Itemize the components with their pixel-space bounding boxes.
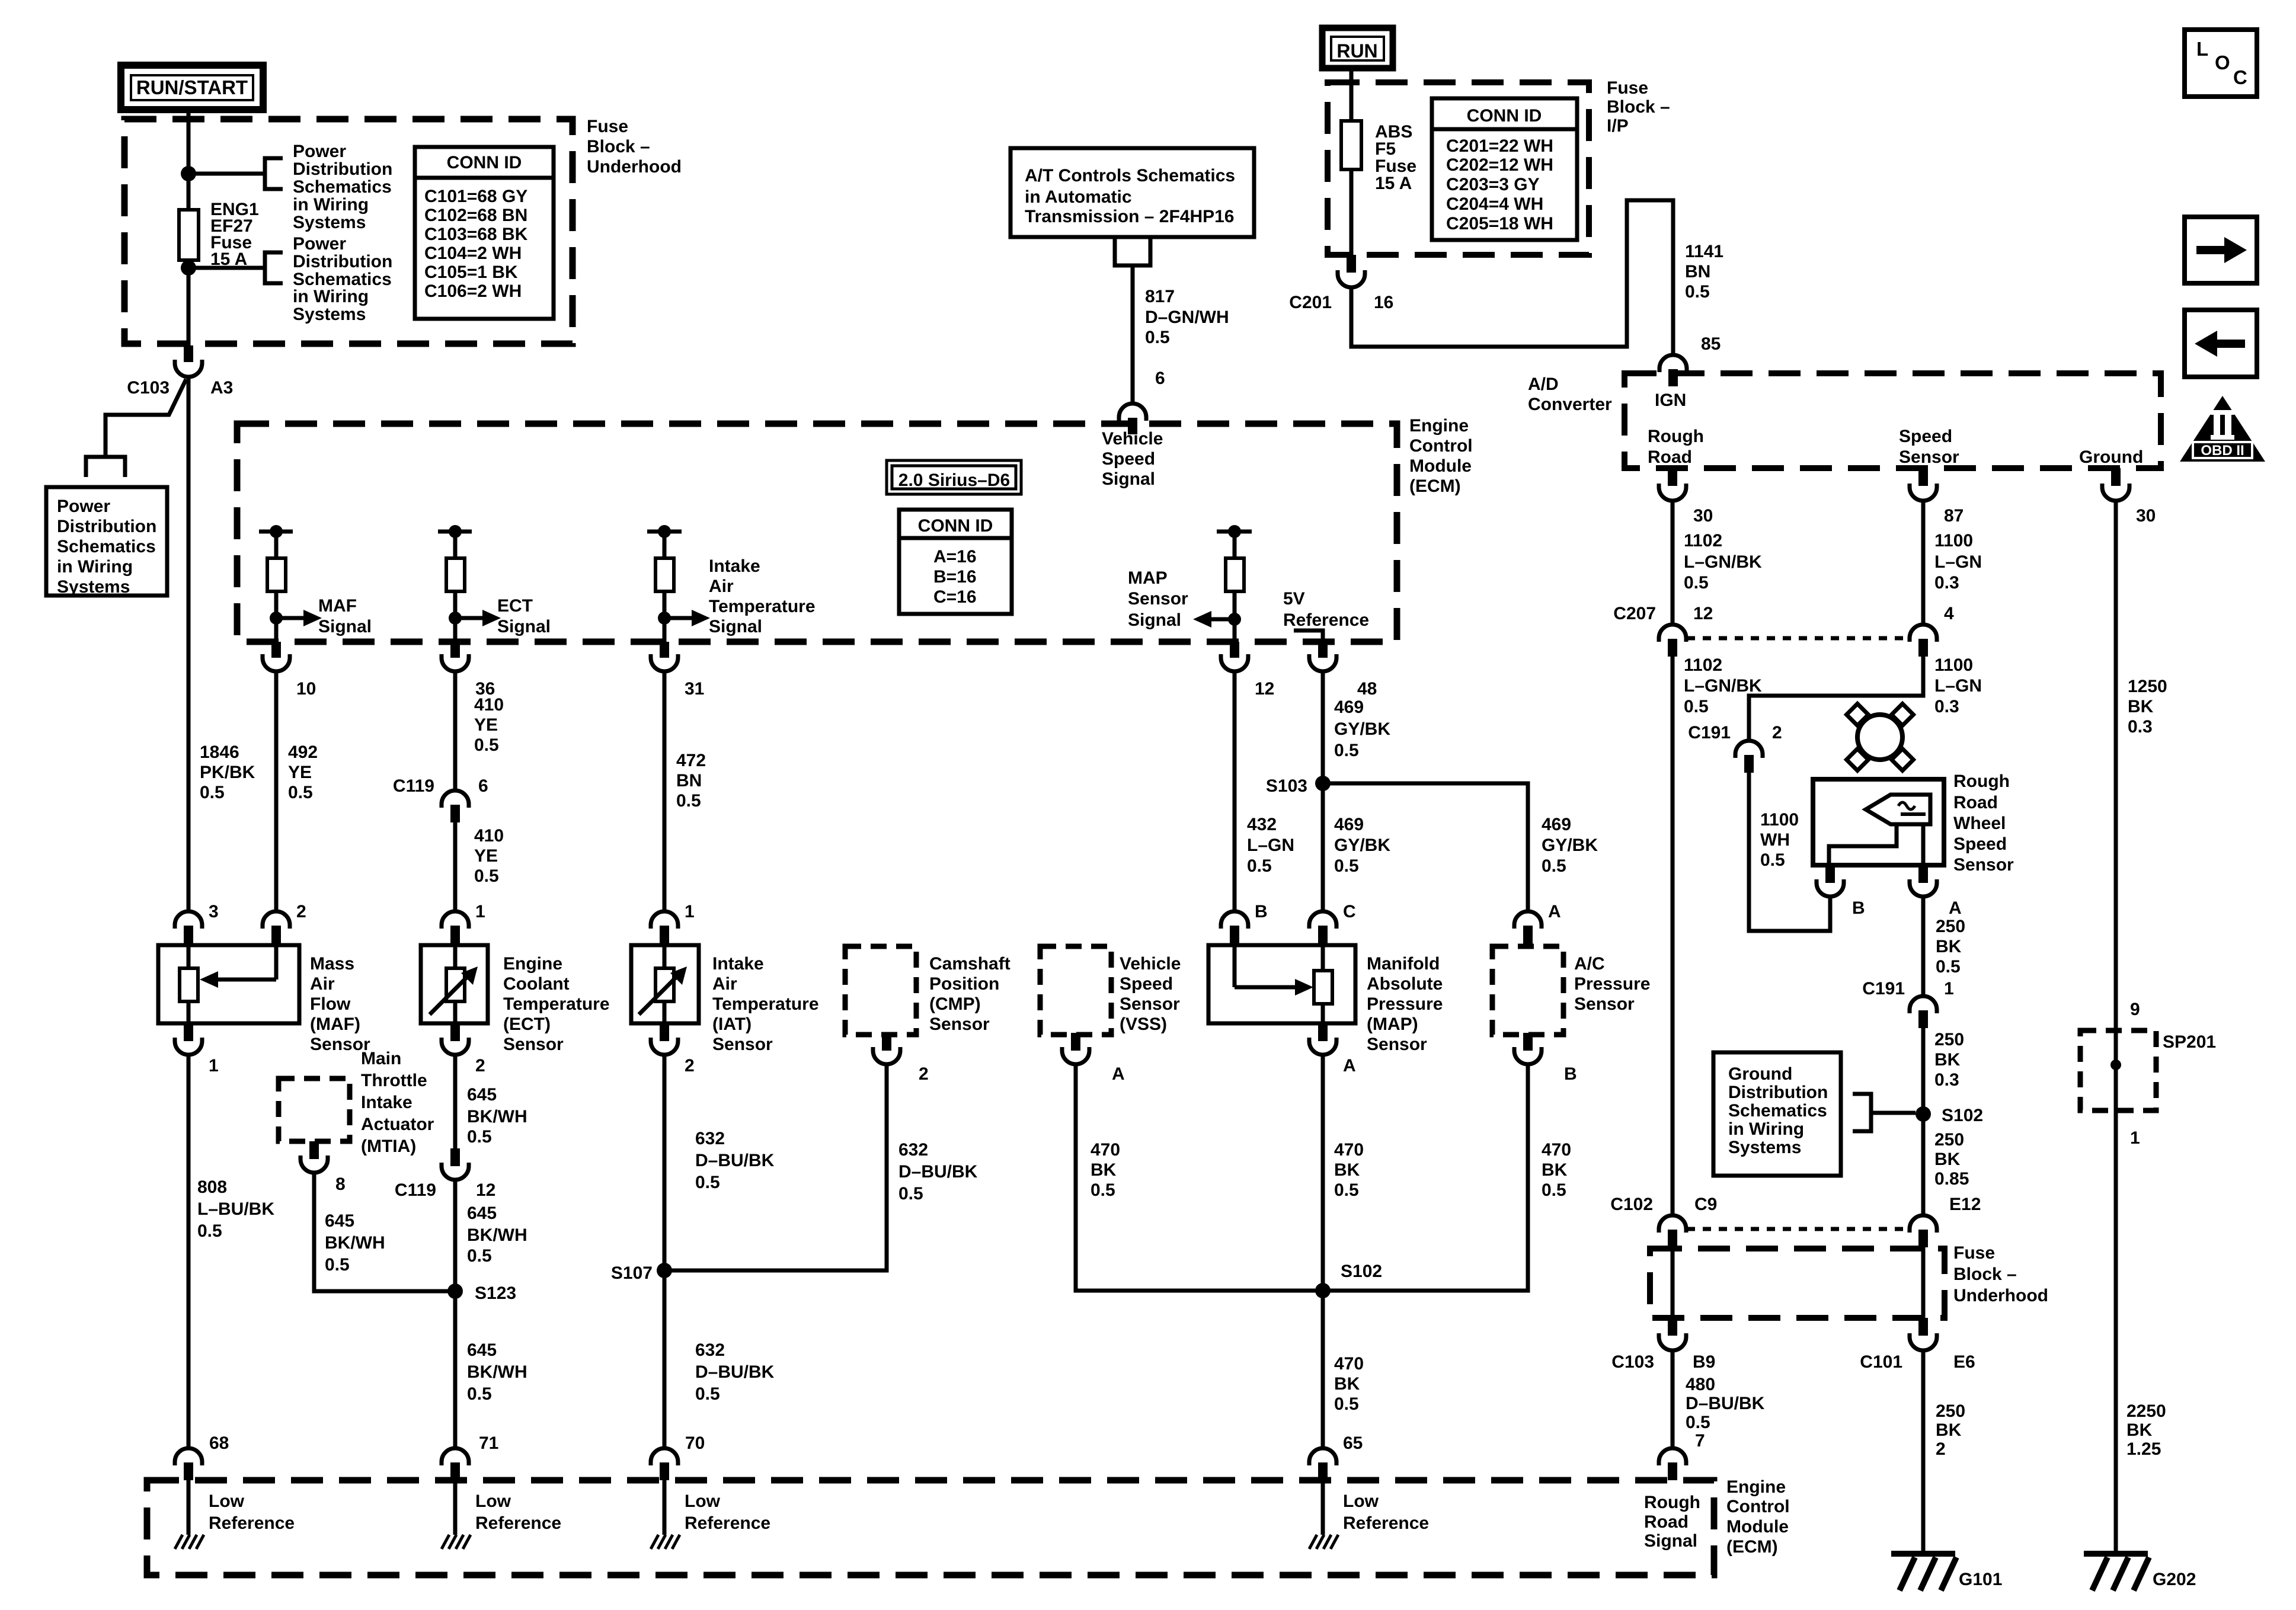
svg-text:632: 632: [898, 1140, 928, 1160]
svg-text:Actuator: Actuator: [361, 1115, 434, 1134]
svg-text:Rough: Rough: [1644, 1493, 1700, 1512]
svg-text:BK/WH: BK/WH: [467, 1225, 527, 1245]
ECM bottom dashed box: [147, 1480, 1714, 1575]
svg-text:C105=1 BK: C105=1 BK: [424, 263, 518, 282]
svg-text:CONN ID: CONN ID: [1467, 106, 1542, 126]
ECM MAP sensor signal resistor: [1217, 530, 1252, 534]
node MAF signal arrow: [270, 612, 283, 625]
off-page bracket 3: [86, 457, 125, 477]
svg-text:469: 469: [1542, 815, 1571, 834]
svg-text:C119: C119: [395, 1180, 436, 1200]
svg-text:C203=3 GY: C203=3 GY: [1446, 175, 1540, 194]
svg-text:31: 31: [685, 679, 704, 699]
svg-text:D–BU/BK: D–BU/BK: [695, 1151, 775, 1170]
svg-text:(CMP): (CMP): [929, 994, 981, 1014]
svg-text:Schematics: Schematics: [57, 537, 156, 556]
svg-text:(ECM): (ECM): [1409, 476, 1461, 496]
svg-text:A: A: [1343, 1056, 1356, 1076]
svg-text:A/D: A/D: [1528, 375, 1559, 394]
connector ECM pin 48: [1318, 642, 1328, 658]
svg-text:Sensor: Sensor: [1367, 1035, 1427, 1054]
svg-text:C101=68 GY: C101=68 GY: [424, 187, 527, 206]
svg-text:1100: 1100: [1934, 531, 1973, 550]
svg-text:410: 410: [474, 826, 504, 846]
svg-text:BK: BK: [1936, 937, 1962, 956]
off-page bracket 2: [265, 252, 283, 283]
svg-text:Schematics: Schematics: [1728, 1101, 1827, 1121]
svg-text:1: 1: [209, 1056, 219, 1076]
svg-text:A/C: A/C: [1574, 954, 1605, 974]
svg-text:1100: 1100: [1760, 810, 1799, 830]
svg-text:0.3: 0.3: [2128, 717, 2153, 737]
svg-text:Sensor: Sensor: [1120, 994, 1180, 1014]
svg-text:0.5: 0.5: [1247, 856, 1272, 876]
RUN power flag: [1322, 28, 1393, 68]
connector ECM pin 10: [271, 642, 281, 658]
wire 472 BN pin31 to IAT: [663, 672, 667, 913]
ground low reference 65: [1309, 1535, 1317, 1549]
svg-text:645: 645: [467, 1340, 497, 1360]
VSS sensor dashed box: [1040, 946, 1111, 1035]
wire RUN to ABS fuse: [1350, 68, 1354, 121]
svg-text:BN: BN: [676, 771, 702, 790]
MTIA dashed box: [279, 1078, 350, 1141]
svg-text:L–BU/BK: L–BU/BK: [197, 1199, 274, 1219]
ECM dashed box: [237, 424, 1397, 642]
node junction lower: [181, 260, 196, 276]
svg-text:85: 85: [1701, 334, 1721, 354]
svg-text:Pressure: Pressure: [1574, 974, 1650, 994]
connector C101 pin E6: [1918, 1318, 1928, 1336]
svg-text:BK: BK: [2126, 1420, 2153, 1440]
svg-text:Pressure: Pressure: [1367, 994, 1443, 1014]
wire low reference pin 68: [187, 1480, 191, 1535]
svg-text:C106=2 WH: C106=2 WH: [424, 281, 522, 301]
svg-text:Speed: Speed: [1120, 974, 1173, 994]
svg-text:S103: S103: [1266, 776, 1307, 796]
svg-text:Temperature: Temperature: [712, 994, 819, 1014]
wire S103 branch to AC pressure: [1323, 783, 1528, 913]
connector sensor top pin C at x2232: [1309, 911, 1336, 929]
svg-text:5V: 5V: [1283, 589, 1305, 609]
box ground distribution schematics: [1713, 1052, 1841, 1176]
svg-text:G202: G202: [2153, 1570, 2196, 1589]
svg-text:0.5: 0.5: [474, 866, 499, 886]
svg-text:2: 2: [475, 1056, 485, 1076]
svg-text:48: 48: [1357, 679, 1377, 699]
svg-text:Power: Power: [293, 234, 346, 254]
svg-text:SP201: SP201: [2163, 1032, 2216, 1052]
svg-text:B=16: B=16: [933, 567, 977, 587]
svg-text:808: 808: [197, 1177, 227, 1197]
svg-text:C9: C9: [1694, 1195, 1717, 1214]
svg-text:Engine: Engine: [1409, 416, 1469, 436]
svg-text:6: 6: [478, 776, 488, 796]
svg-text:71: 71: [479, 1433, 498, 1453]
wire ABS fuse to C201: [1350, 169, 1354, 256]
svg-text:Air: Air: [310, 974, 335, 994]
svg-text:YE: YE: [474, 846, 498, 866]
svg-text:3: 3: [209, 902, 219, 921]
svg-text:Sensor: Sensor: [1953, 855, 2014, 875]
svg-text:Speed: Speed: [1899, 427, 1952, 446]
wire 250 through fuse block: [1921, 1247, 1926, 1319]
svg-text:0.5: 0.5: [1334, 1394, 1359, 1414]
svg-text:Distribution: Distribution: [293, 252, 392, 271]
svg-text:0.5: 0.5: [197, 1221, 222, 1241]
svg-text:C103: C103: [1611, 1352, 1654, 1372]
svg-text:Distribution: Distribution: [1728, 1083, 1828, 1102]
connector sensor top pin 1 at x768: [442, 911, 469, 929]
svg-text:Sensor: Sensor: [503, 1035, 564, 1054]
rough road wheel speed sensor box: [1813, 779, 1944, 865]
svg-text:Speed: Speed: [1953, 834, 2007, 854]
connector dashed sensor bottom pin B at x2578: [1523, 1033, 1533, 1051]
connector sensor pin A: [1918, 865, 1928, 883]
svg-text:Manifold: Manifold: [1367, 954, 1440, 974]
wire 410 YE C119 to ECT: [453, 822, 458, 913]
svg-text:B9: B9: [1693, 1352, 1715, 1372]
svg-text:0.5: 0.5: [1334, 1180, 1359, 1200]
CONN ID table IP: [1432, 98, 1577, 240]
svg-text:432: 432: [1247, 815, 1277, 834]
svg-text:Temperature: Temperature: [709, 597, 816, 616]
arrow box right: [2185, 217, 2257, 283]
svg-text:Reference: Reference: [475, 1513, 561, 1533]
node MAP signal arrow: [1228, 613, 1241, 626]
svg-text:Sensor: Sensor: [1128, 589, 1188, 609]
svg-text:Intake: Intake: [361, 1093, 412, 1112]
svg-text:Road: Road: [1953, 793, 1998, 812]
svg-text:Camshaft: Camshaft: [929, 954, 1011, 974]
svg-text:C=16: C=16: [933, 587, 977, 607]
svg-text:Vehicle: Vehicle: [1120, 954, 1181, 974]
svg-text:470: 470: [1334, 1354, 1364, 1374]
box 2.0 Sirius-D6: [887, 460, 1021, 494]
connector sensor top pin B at x2083: [1221, 911, 1248, 929]
svg-text:C204=4 WH: C204=4 WH: [1446, 194, 1543, 214]
connector E12: [1910, 1215, 1937, 1233]
MAF internal arrow: [274, 945, 279, 980]
svg-text:A3: A3: [210, 378, 233, 398]
svg-text:Road: Road: [1644, 1512, 1689, 1532]
svg-text:A=16: A=16: [933, 547, 977, 566]
svg-text:in Automatic: in Automatic: [1025, 187, 1132, 207]
svg-text:Rough: Rough: [1953, 772, 2010, 791]
svg-text:C: C: [1343, 902, 1356, 921]
svg-text:6: 6: [1155, 369, 1165, 388]
MAF sensor box: [158, 945, 299, 1023]
svg-text:Intake: Intake: [709, 556, 760, 576]
node ECT signal arrow: [449, 612, 462, 625]
wire 645 S123 to pin71: [453, 1291, 458, 1449]
wire 470 VSS to S102: [1076, 1064, 1323, 1291]
svg-text:12: 12: [1693, 604, 1713, 623]
svg-text:RUN: RUN: [1336, 40, 1377, 62]
ground low reference 68: [175, 1535, 183, 1549]
svg-text:L: L: [2196, 38, 2208, 60]
ground low reference 71: [442, 1535, 449, 1549]
svg-text:469: 469: [1334, 815, 1364, 834]
svg-text:D–BU/BK: D–BU/BK: [1686, 1394, 1765, 1413]
svg-text:B: B: [1852, 898, 1865, 918]
svg-text:1102: 1102: [1684, 655, 1722, 675]
svg-text:Reference: Reference: [685, 1513, 770, 1533]
ground G202: [2084, 1551, 2148, 1557]
fuse ABS F5 15A: [1341, 121, 1361, 169]
svg-text:L–GN: L–GN: [1934, 552, 1982, 572]
svg-text:Reference: Reference: [1343, 1513, 1429, 1533]
svg-text:Position: Position: [929, 974, 999, 994]
svg-text:Fuse: Fuse: [587, 117, 628, 136]
svg-text:Distribution: Distribution: [57, 517, 156, 536]
svg-text:1.25: 1.25: [2126, 1439, 2161, 1459]
svg-text:Sensor: Sensor: [1574, 994, 1635, 1014]
node IAT signal arrow: [658, 612, 671, 625]
svg-text:15 A: 15 A: [1375, 174, 1412, 193]
svg-text:1: 1: [1944, 979, 1954, 998]
svg-text:GY/BK: GY/BK: [1334, 719, 1390, 739]
svg-text:Rough: Rough: [1648, 427, 1704, 446]
svg-text:Low: Low: [475, 1491, 511, 1511]
svg-text:0.85: 0.85: [1934, 1169, 1969, 1189]
AC pressure sensor dashed box: [1492, 946, 1563, 1035]
svg-text:Signal: Signal: [497, 617, 551, 636]
svg-text:B: B: [1255, 902, 1268, 921]
IAT sensor box: [631, 945, 699, 1023]
svg-text:0.5: 0.5: [1542, 856, 1566, 876]
svg-text:2: 2: [1772, 723, 1782, 742]
svg-text:Sensor: Sensor: [1899, 447, 1959, 467]
wire 470 S102 to pin65: [1321, 1291, 1325, 1449]
svg-text:Signal: Signal: [709, 617, 762, 636]
svg-text:70: 70: [685, 1433, 705, 1453]
svg-text:0.5: 0.5: [1685, 282, 1710, 302]
svg-text:1: 1: [685, 902, 695, 921]
svg-text:7: 7: [1695, 1431, 1705, 1451]
svg-text:S123: S123: [475, 1283, 516, 1303]
svg-text:in Wiring: in Wiring: [293, 195, 369, 215]
svg-text:68: 68: [209, 1433, 229, 1453]
svg-text:O: O: [2215, 52, 2230, 73]
svg-text:C202=12 WH: C202=12 WH: [1446, 155, 1553, 175]
svg-text:0.3: 0.3: [1934, 573, 1959, 593]
svg-text:(VSS): (VSS): [1120, 1014, 1167, 1034]
svg-text:2: 2: [919, 1064, 929, 1084]
svg-text:410: 410: [474, 695, 504, 715]
RUN/START power flag: [121, 65, 263, 110]
svg-text:(MAP): (MAP): [1367, 1014, 1418, 1034]
svg-text:492: 492: [288, 742, 318, 762]
wire vehicle speed signal into ECM: [1131, 265, 1135, 404]
svg-text:A: A: [1112, 1064, 1125, 1084]
off-page bracket 1: [265, 158, 283, 189]
node SP201 splice: [2110, 1060, 2121, 1070]
svg-text:30: 30: [2136, 506, 2156, 526]
svg-text:2.0 Sirius–D6: 2.0 Sirius–D6: [898, 470, 1010, 490]
wire 808 L-BU/BK MAF to pin68: [187, 1055, 191, 1449]
svg-text:in Wiring: in Wiring: [1728, 1119, 1804, 1139]
svg-text:0.5: 0.5: [1686, 1413, 1710, 1432]
svg-text:MAP: MAP: [1128, 568, 1168, 588]
svg-text:Engine: Engine: [503, 954, 562, 974]
svg-text:C207: C207: [1613, 604, 1656, 623]
svg-text:16: 16: [1374, 293, 1393, 312]
svg-text:BK/WH: BK/WH: [325, 1233, 385, 1253]
svg-text:470: 470: [1091, 1140, 1120, 1160]
svg-text:IGN: IGN: [1655, 391, 1686, 410]
connector C102 pin C9: [1659, 1215, 1686, 1233]
svg-text:(ECM): (ECM): [1726, 1537, 1778, 1557]
svg-text:87: 87: [1944, 506, 1964, 526]
wire 470 AC B to S102: [1323, 1064, 1528, 1291]
wire branch to power distribution ref 2: [188, 266, 265, 270]
connector ECM bottom pin 71: [442, 1448, 469, 1465]
svg-text:Low: Low: [685, 1491, 721, 1511]
connector sensor top pin A at x2578: [1514, 911, 1542, 929]
svg-text:E12: E12: [1949, 1195, 1981, 1214]
wire 1100 C207 to C191-2: [1749, 657, 1923, 741]
connector sensor bottom pin A at x2232: [1318, 1023, 1328, 1041]
svg-text:30: 30: [1693, 506, 1713, 526]
wire 1100 WH C191-2 to sensor B: [1749, 773, 1830, 931]
svg-text:Engine: Engine: [1726, 1477, 1786, 1497]
svg-text:CONN ID: CONN ID: [447, 153, 522, 172]
svg-text:Sensor: Sensor: [712, 1035, 773, 1054]
ECT sensor box: [421, 945, 488, 1023]
svg-text:250: 250: [1934, 1130, 1964, 1150]
svg-text:Power: Power: [57, 497, 110, 516]
svg-text:MAF: MAF: [318, 596, 357, 616]
box A/T Controls Schematics reference: [1011, 148, 1254, 237]
svg-text:Vehicle: Vehicle: [1102, 429, 1163, 449]
wire fuse to C103: [187, 260, 191, 347]
ECM ECT signal resistor: [438, 530, 472, 534]
svg-text:BK: BK: [1542, 1160, 1568, 1180]
connector sensor top pin 3 at x318: [175, 911, 202, 929]
svg-text:L–GN: L–GN: [1934, 676, 1982, 696]
wire 632 IAT to S107: [663, 1055, 667, 1270]
svg-text:D–BU/BK: D–BU/BK: [898, 1162, 978, 1182]
svg-text:C101: C101: [1860, 1352, 1902, 1372]
bracket ground distribution to S102: [1853, 1094, 1871, 1131]
connector sensor top pin 1 at x1121: [651, 911, 678, 929]
svg-text:Module: Module: [1726, 1517, 1789, 1537]
svg-text:C201=22 WH: C201=22 WH: [1446, 136, 1553, 156]
svg-text:Underhood: Underhood: [1953, 1286, 2048, 1305]
svg-text:Signal: Signal: [318, 617, 372, 636]
svg-text:2: 2: [296, 902, 306, 921]
svg-text:2250: 2250: [2126, 1401, 2166, 1421]
svg-text:0.5: 0.5: [1684, 697, 1709, 716]
svg-text:YE: YE: [288, 763, 312, 782]
wire 1100 A/D to C207: [1921, 501, 1926, 625]
svg-text:Ground: Ground: [2079, 447, 2143, 467]
wire 250 BK C191-1 to E12: [1921, 1028, 1926, 1215]
svg-text:Block –: Block –: [1607, 97, 1670, 117]
svg-text:Road: Road: [1648, 447, 1692, 467]
svg-text:0.5: 0.5: [1334, 856, 1359, 876]
svg-text:1846: 1846: [200, 742, 239, 762]
svg-text:BK/WH: BK/WH: [467, 1362, 527, 1382]
svg-text:C103=68 BK: C103=68 BK: [424, 225, 528, 244]
svg-text:C104=2 WH: C104=2 WH: [424, 244, 522, 263]
wire 480 D-BU/BK to pin7: [1671, 1351, 1675, 1449]
svg-text:0.5: 0.5: [1684, 573, 1709, 593]
svg-text:250: 250: [1934, 1030, 1964, 1049]
svg-text:C191: C191: [1688, 723, 1731, 742]
connector C191 pin 2: [1735, 741, 1763, 758]
svg-text:Mass: Mass: [310, 954, 354, 974]
svg-text:Speed: Speed: [1102, 449, 1155, 469]
wire low reference pin 65: [1321, 1480, 1325, 1535]
svg-text:CONN ID: CONN ID: [918, 516, 993, 536]
svg-text:BK: BK: [1334, 1374, 1360, 1394]
svg-text:Fuse: Fuse: [1607, 78, 1648, 98]
svg-text:0.5: 0.5: [467, 1246, 492, 1266]
svg-text:RUN/START: RUN/START: [136, 76, 248, 98]
ECM IAT signal resistor: [647, 530, 682, 534]
svg-text:12: 12: [1255, 679, 1274, 699]
svg-text:Module: Module: [1409, 456, 1472, 476]
connector C119 pin 12: [450, 1148, 460, 1166]
node splice S102: [1315, 1283, 1331, 1298]
svg-text:12: 12: [476, 1180, 495, 1200]
svg-text:S102: S102: [1942, 1106, 1983, 1125]
svg-text:0.3: 0.3: [1934, 697, 1959, 716]
svg-text:0.5: 0.5: [1091, 1180, 1115, 1200]
svg-text:Coolant: Coolant: [503, 974, 570, 994]
wire 645 MTIA to S123: [314, 1173, 455, 1291]
svg-text:BK: BK: [1934, 1050, 1961, 1070]
svg-text:645: 645: [325, 1211, 354, 1231]
connector C207 pin 4: [1910, 625, 1937, 642]
svg-text:Ground: Ground: [1728, 1064, 1792, 1084]
connector ECM pin 12: [1230, 642, 1239, 658]
svg-text:Converter: Converter: [1528, 395, 1612, 414]
fuse ENG1 EF27 15A: [179, 210, 199, 260]
connector ECM bottom pin 70: [651, 1448, 678, 1465]
svg-text:C: C: [2233, 66, 2247, 88]
connector ECM pin 31: [660, 642, 669, 658]
svg-text:Signal: Signal: [1644, 1531, 1697, 1551]
wire low reference pin 71: [453, 1480, 458, 1535]
svg-text:Fuse: Fuse: [1953, 1243, 1995, 1263]
wire branch to power distribution ref 1: [188, 172, 265, 176]
wire 645 ECT to C119-12: [453, 1055, 458, 1148]
svg-text:2: 2: [1936, 1439, 1946, 1459]
svg-text:Low: Low: [209, 1491, 245, 1511]
svg-text:632: 632: [695, 1340, 725, 1360]
svg-text:Control: Control: [1726, 1497, 1790, 1516]
svg-text:BK: BK: [2128, 697, 2154, 716]
svg-text:2: 2: [685, 1056, 695, 1076]
svg-text:10: 10: [296, 679, 316, 699]
svg-text:Systems: Systems: [293, 213, 366, 232]
svg-text:472: 472: [676, 751, 706, 770]
node splice S103: [1315, 776, 1331, 791]
svg-text:0.5: 0.5: [695, 1173, 720, 1192]
svg-text:0.5: 0.5: [1145, 328, 1170, 347]
tone wheel symbol: [1857, 715, 1902, 760]
svg-text:(IAT): (IAT): [712, 1014, 752, 1034]
svg-text:632: 632: [695, 1129, 725, 1148]
wire low reference pin 70: [663, 1480, 667, 1535]
svg-text:GY/BK: GY/BK: [1334, 836, 1390, 855]
svg-text:C201: C201: [1289, 293, 1332, 312]
wire 1250 BK ground column: [2114, 501, 2118, 1554]
svg-text:Power: Power: [293, 142, 346, 161]
